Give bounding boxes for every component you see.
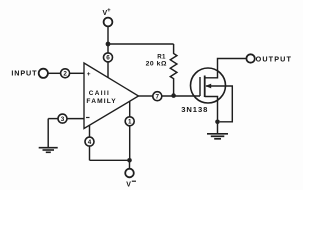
svg-text:4: 4 <box>88 139 92 146</box>
svg-text:OUTPUT: OUTPUT <box>256 54 292 63</box>
svg-text:R1: R1 <box>157 53 166 60</box>
svg-text:INPUT: INPUT <box>11 68 37 77</box>
svg-text:1: 1 <box>128 119 132 126</box>
svg-text:+: + <box>87 71 91 78</box>
svg-text:20 kΩ: 20 kΩ <box>146 60 167 67</box>
svg-text:3: 3 <box>61 116 65 123</box>
svg-text:2: 2 <box>63 71 67 78</box>
svg-text:V: V <box>126 182 131 189</box>
svg-text:CAIII: CAIII <box>89 90 110 97</box>
svg-text:FAMILY: FAMILY <box>86 98 116 105</box>
svg-text:3N138: 3N138 <box>181 105 208 114</box>
svg-text:6: 6 <box>106 55 110 62</box>
svg-text:7: 7 <box>156 93 160 100</box>
